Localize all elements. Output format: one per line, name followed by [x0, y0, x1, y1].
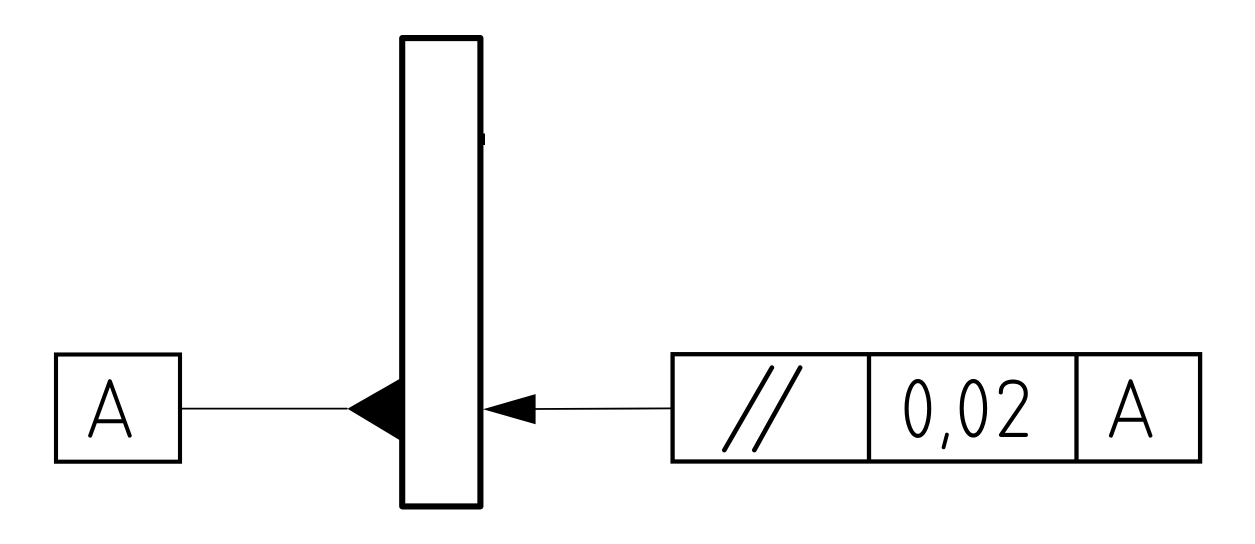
datum reference letter A in frame: [1111, 381, 1150, 435]
parallelism symbol //: [724, 368, 800, 451]
datum letter A: [90, 381, 130, 435]
tolerance value digit 0 (first): [907, 381, 930, 436]
leader wire from datum box to datum triangle: [182, 408, 348, 410]
feature control frame outline: [673, 354, 1201, 461]
tolerance value digit 2: [1001, 382, 1026, 435]
edge bump artifact on right edge: [483, 134, 485, 146]
leader wire from arrowhead to feature control frame: [534, 407, 672, 410]
frame divider 1: [867, 354, 871, 461]
feature rectangle (toleranced surface): [402, 38, 480, 506]
frame divider 2: [1074, 354, 1078, 461]
arrowhead of tolerance leader: [483, 394, 536, 424]
datum feature box A: [56, 355, 180, 462]
datum triangle (filled) on left surface: [348, 378, 401, 440]
tolerance value digit 0 (second): [962, 381, 985, 435]
tolerance value comma: [944, 435, 947, 448]
